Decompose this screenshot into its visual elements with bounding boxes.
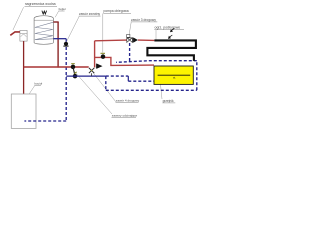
4-way valve X symbol bbox=[89, 68, 94, 73]
pump triangle pompa bbox=[133, 38, 138, 43]
heater nagrzewnica box bbox=[20, 30, 27, 41]
label ogrz podlogowe bbox=[154, 26, 184, 30]
label pompa obiegowa bbox=[103, 9, 131, 13]
check valve zawor zwrotny bbox=[63, 42, 68, 46]
label nagrzewnica wodna bbox=[25, 2, 58, 6]
leader grzejnik bbox=[161, 84, 163, 99]
svg-text:zawory odcinające: zawory odcinające bbox=[112, 113, 138, 117]
svg-text:grzejnik: grzejnik bbox=[163, 99, 174, 103]
wire red branch to radiator with valve bbox=[95, 57, 154, 65]
kociol boiler box bbox=[11, 94, 36, 128]
leader kociol bbox=[29, 86, 34, 94]
wire navy down to check valve bbox=[65, 39, 67, 42]
wire red heater downpipe to boiler bbox=[23, 41, 25, 103]
label zawor 4 drogowy bbox=[116, 99, 140, 103]
label grzejnik bbox=[162, 99, 175, 103]
bypass wire between shutoff valves bbox=[73, 67, 75, 76]
wire red heater supply stub bbox=[10, 32, 20, 35]
label zawor 3 drogowy bbox=[131, 18, 158, 22]
arrow flow marker 2 bbox=[168, 35, 172, 39]
label zawor zwrotny bbox=[79, 12, 101, 16]
arrow flow marker 1 bbox=[170, 28, 174, 32]
wire red riser from 4way valve bbox=[94, 41, 96, 68]
leader nagrzewnica bbox=[13, 7, 24, 30]
svg-text:zawór 4 drogowy: zawór 4 drogowy bbox=[116, 99, 140, 103]
shutoff valve dot3 on radiator branch bbox=[101, 53, 106, 59]
wire red tank downpipe bbox=[57, 22, 59, 68]
wire red from pump to serpentine bbox=[138, 39, 155, 41]
leader zawor zwrotny bbox=[67, 16, 79, 41]
wire navy dashed down from T to loop bottom bbox=[105, 76, 107, 90]
pump arrow after 4-way valve bbox=[96, 64, 102, 69]
wire navy dashed boiler return horizontal bbox=[24, 120, 66, 122]
label kociol bbox=[34, 82, 42, 86]
svg-text:zawór 3 drogowy: zawór 3 drogowy bbox=[131, 18, 156, 22]
label W tank marking bbox=[42, 11, 47, 14]
tank coil heat exchanger bbox=[35, 22, 53, 39]
wire navy dashed down from check valve to boiler level bbox=[65, 47, 67, 121]
wire navy dashed radiator return bbox=[128, 80, 154, 82]
leader bojler bbox=[55, 11, 58, 17]
wire red tank top stub bbox=[53, 21, 58, 23]
wire navy dashed under-serpentine return bbox=[116, 61, 197, 63]
leader zawor 3 drogowy bbox=[129, 22, 131, 34]
leader ogrz podlogowe bbox=[155, 30, 157, 40]
4-way valve bottom stub to navy bbox=[91, 73, 93, 76]
leader pompa obiegowa vertical bbox=[102, 14, 104, 53]
wire red main supply horizontal bbox=[24, 66, 89, 68]
wire navy main return horizontal bbox=[66, 75, 106, 77]
svg-text:at.: at. bbox=[173, 75, 176, 79]
svg-text:zawór zwrotny: zawór zwrotny bbox=[79, 12, 100, 16]
svg-text:ogrz. podłogowe: ogrz. podłogowe bbox=[155, 26, 181, 30]
label bojler bbox=[58, 7, 66, 11]
svg-text:kocioł: kocioł bbox=[35, 82, 43, 86]
svg-text:pompa obiegowa: pompa obiegowa bbox=[104, 9, 129, 13]
wire navy tank return stub bbox=[53, 38, 66, 40]
tank bojler body bbox=[34, 16, 53, 45]
wire navy dashed 3way valve drop bbox=[129, 43, 131, 62]
svg-text:bojler: bojler bbox=[59, 7, 66, 11]
floor heating serpentine bbox=[147, 40, 196, 61]
label zawory odcinajace bbox=[112, 113, 138, 117]
shutoff valve dot1 on red main bbox=[71, 64, 76, 69]
wire navy dashed loop right vertical bbox=[196, 61, 198, 91]
leader zawory odcinajace bbox=[75, 72, 113, 115]
leader zawor 4 drogowy bbox=[93, 73, 116, 102]
shutoff valve dot2 on navy main bbox=[73, 72, 78, 78]
wire navy step down to radiator return bbox=[127, 76, 129, 81]
3-way valve bowtie with actuator bbox=[127, 34, 133, 42]
wire navy dashed main return continues bbox=[106, 75, 129, 77]
svg-text:nagrzewnica wodna: nagrzewnica wodna bbox=[25, 2, 56, 6]
radiator grzejnik yellow box bbox=[154, 66, 193, 84]
boiler pipe end circle bbox=[22, 103, 24, 105]
wire navy dashed loop bottom bbox=[106, 89, 197, 91]
wire red top supply line bbox=[95, 39, 127, 42]
